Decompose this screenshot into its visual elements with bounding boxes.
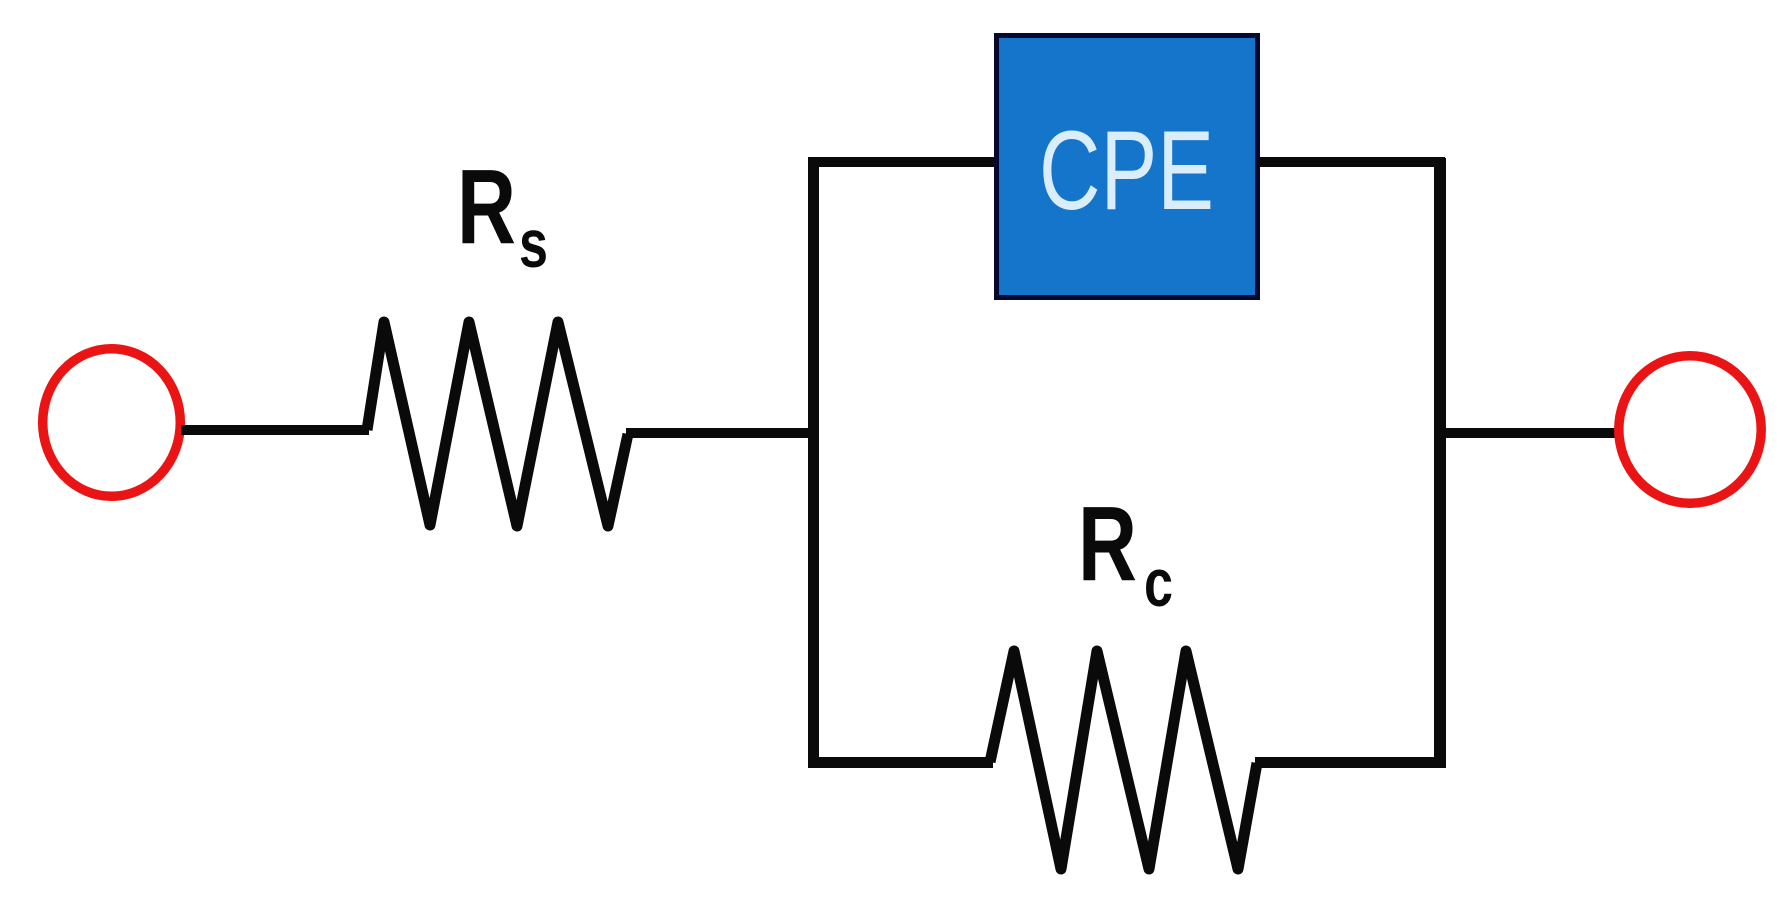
CPE box (997, 36, 1258, 298)
svg-text:s: s (519, 206, 548, 282)
wire: top rail left segment (808, 157, 997, 167)
wire: bottom rail left segment (808, 757, 993, 768)
svg-text:CPE: CPE (1039, 108, 1214, 233)
wire: right vertical of parallel loop (1434, 158, 1446, 767)
wire from parallel block to T2 (1440, 428, 1618, 438)
terminal T1 (left open terminal) (43, 349, 181, 497)
terminal T2 (right open terminal) (1619, 356, 1761, 504)
wire from Rs to parallel block (626, 428, 815, 438)
wire: left vertical of parallel loop (808, 158, 819, 767)
wire: top rail right segment (1257, 157, 1445, 167)
wire: bottom rail right segment (1255, 757, 1446, 768)
svg-text:R: R (1078, 485, 1137, 603)
resistor Rs (367, 322, 628, 526)
resistor Rc (990, 651, 1257, 869)
wire from T1 to Rs (181, 425, 369, 435)
svg-text:R: R (457, 148, 516, 266)
svg-text:c: c (1144, 545, 1173, 621)
